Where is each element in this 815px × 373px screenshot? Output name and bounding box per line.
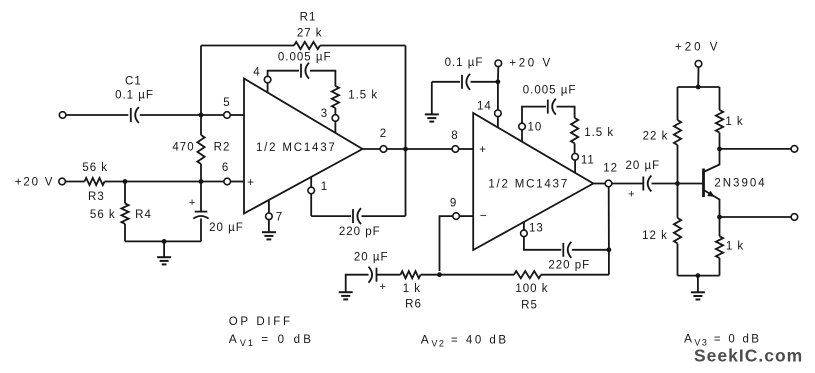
op-amp U2 pin 10 — [519, 123, 526, 130]
ground stage3 — [697, 276, 699, 293]
wire: 220pF left segment stage1 — [311, 215, 351, 217]
node: stage2 supply junction — [496, 79, 501, 84]
svg-text:5: 5 — [223, 97, 230, 109]
wire: pin 8 stub — [459, 148, 473, 150]
svg-text:1 k: 1 k — [725, 116, 743, 128]
capacitor 0.1 uF stage2 — [461, 75, 463, 89]
svg-text:−: − — [480, 211, 487, 223]
svg-text:1: 1 — [321, 181, 328, 193]
svg-text:+20 V: +20 V — [509, 57, 552, 69]
wire: pin 12 down to feedback — [608, 187, 610, 250]
transistor Q1 2N3904 base bar — [702, 169, 705, 198]
resistor R5 — [514, 271, 541, 278]
svg-text:220 pF: 220 pF — [339, 226, 381, 238]
svg-text:220 pF: 220 pF — [548, 259, 590, 271]
op-amp U1 pin 3 — [332, 115, 339, 122]
node: input terminal — [59, 112, 66, 119]
op-amp U2 pin 12 — [605, 180, 612, 187]
node: supply junction stage3 — [696, 85, 701, 90]
svg-text:1 k: 1 k — [403, 283, 421, 295]
svg-text:20 µF: 20 µF — [209, 222, 244, 234]
wire: pin 2 to output node — [387, 148, 406, 150]
resistor R2 — [200, 115, 202, 135]
svg-text:C1: C1 — [125, 76, 142, 88]
op-amp U1 pin 6 — [224, 178, 231, 185]
wire: node D to R5 — [440, 274, 515, 276]
junction: stage1 ground node — [162, 239, 167, 244]
svg-text:0.005 µF: 0.005 µF — [523, 85, 577, 97]
resistor R6 — [401, 271, 421, 278]
wire: base node to base — [678, 183, 704, 185]
svg-text:3: 3 — [321, 108, 328, 120]
op-amp U1 pin 4 — [264, 76, 271, 83]
wire: output node to pin 8 — [406, 148, 453, 150]
wire: +20V down — [697, 67, 699, 87]
node B junction — [123, 179, 128, 184]
resistor 1 k collector — [719, 87, 721, 110]
node: output terminal bottom — [791, 214, 798, 221]
wire: 220pF right segment stage1 — [362, 215, 406, 217]
wire: cap to 1.5k corner — [310, 71, 335, 86]
svg-text:1.5 k: 1.5 k — [584, 127, 614, 139]
transistor Q1 emitter arrow — [707, 191, 715, 197]
ground pin 7 — [268, 220, 270, 233]
node: +20V terminal stage1 — [59, 178, 66, 185]
svg-text:2: 2 — [380, 128, 387, 140]
wire: R1 left segment — [201, 45, 294, 47]
svg-text:470: 470 — [172, 142, 194, 154]
wire: 1.5k to pin 3 — [334, 108, 336, 115]
wire: 1.5k to pin 11 — [574, 143, 576, 153]
svg-text:1 k: 1 k — [726, 241, 744, 253]
wire: pin 12 to output cap — [612, 183, 644, 185]
wire: collector output wire — [720, 148, 792, 150]
wire: bottom rail stage3 — [678, 275, 720, 277]
wire: pin 1 down — [310, 194, 312, 216]
capacitor 0.005 uF stage2 — [547, 100, 549, 114]
wire: 0.1uF to supply node — [471, 81, 498, 83]
wire: feedback node down to R5 — [608, 250, 610, 275]
svg-text:11: 11 — [581, 155, 595, 167]
svg-text:4: 4 — [253, 67, 260, 79]
svg-text:13: 13 — [529, 223, 544, 235]
wire: node C to pin 6 — [201, 181, 224, 183]
wire: cap to 1.5k corner stage2 — [557, 107, 575, 118]
svg-text:8: 8 — [451, 130, 458, 142]
svg-text:22 k: 22 k — [643, 131, 669, 143]
wire: pin 11 stub to edge — [574, 160, 576, 173]
op-amp U2 pin 13 — [521, 230, 528, 237]
wire: ground to 0.1uF — [432, 81, 460, 83]
svg-text:9: 9 — [450, 198, 457, 210]
wire: cap to R6 — [377, 274, 401, 276]
node D junction — [437, 272, 442, 277]
svg-text:+: + — [379, 281, 386, 293]
svg-text:R1: R1 — [300, 12, 317, 24]
node: stage1 output junction — [403, 147, 408, 152]
svg-text:0.1 µF: 0.1 µF — [445, 57, 484, 69]
svg-text:1/2 MC1437: 1/2 MC1437 — [488, 179, 569, 191]
capacitor 220 pF stage2 — [562, 243, 564, 257]
svg-text:56 k: 56 k — [90, 209, 116, 221]
wire: ground stem 0.1uF — [431, 82, 433, 115]
wire: pin 1 stub to edge — [310, 177, 312, 187]
wire: ground corner R6 — [346, 275, 369, 293]
wire: node A up to R1 — [200, 46, 202, 116]
wire: apex to pin 2 — [363, 148, 381, 150]
svg-text:2N3904: 2N3904 — [714, 178, 766, 190]
svg-text:12: 12 — [603, 162, 618, 174]
node: emitter junction — [717, 215, 722, 220]
wire: R5 to feedback column — [541, 274, 609, 276]
node: +20V terminal stage2 — [495, 60, 502, 67]
op-amp U1 pin 2 — [380, 146, 387, 153]
svg-text:+20 V: +20 V — [675, 42, 720, 54]
ground 0.1uF stage2 — [425, 113, 439, 115]
wire: supply node to pin 14 — [497, 82, 499, 110]
wire: apex to pin 12 — [593, 183, 605, 185]
node: base junction — [675, 181, 680, 186]
resistor 12 k — [677, 184, 679, 219]
capacitor 20 uF stage1 — [200, 182, 202, 212]
svg-text:0.005 µF: 0.005 µF — [278, 51, 332, 63]
capacitor C1 — [130, 108, 132, 122]
wire: pin 9 left and down — [440, 216, 453, 271]
svg-text:20 µF: 20 µF — [625, 160, 660, 172]
svg-text:SeekIC.com: SeekIC.com — [694, 346, 803, 366]
capacitor 20 uF input stage2 — [376, 268, 378, 282]
svg-text:OP DIFF: OP DIFF — [229, 316, 293, 328]
svg-text:14: 14 — [477, 100, 492, 112]
op-amp U2 pin 14 — [495, 110, 502, 117]
op-amp U1 pin 7 — [266, 213, 273, 220]
transistor Q1 collector — [705, 149, 720, 172]
wire: node A to pin 5 — [201, 114, 224, 116]
ground R6 network — [339, 291, 353, 293]
wire: pin 5 stub — [230, 114, 244, 116]
svg-text:R3: R3 — [88, 191, 105, 203]
node: ground junction stage3 — [696, 273, 701, 278]
svg-text:0.1 µF: 0.1 µF — [115, 90, 154, 102]
wire: feedback vertical to output node — [405, 46, 407, 217]
wire: pin 7 stub to edge — [268, 200, 270, 213]
op-amp U2 pin 8 — [452, 146, 459, 153]
wire: pin 9 stub — [460, 215, 474, 217]
capacitor 220 pF stage1 — [352, 209, 354, 223]
transistor Q1 emitter — [705, 191, 720, 218]
wire: pin 14 stub to edge — [497, 117, 499, 128]
svg-text:R2: R2 — [214, 142, 231, 154]
resistor R4 — [124, 182, 126, 204]
wire: pin 4 stub to edge — [267, 83, 269, 93]
op-amp U2 pin 11 — [572, 154, 579, 161]
resistor 22 k — [677, 87, 679, 120]
node: +20V terminal stage3 — [695, 61, 702, 68]
svg-text:100 k: 100 k — [515, 283, 548, 295]
resistor R3 — [85, 178, 105, 185]
wire: pin 13 down and right — [524, 237, 561, 250]
node: collector junction — [717, 147, 722, 152]
svg-text:1/2 MC1437: 1/2 MC1437 — [256, 142, 337, 154]
node: stage2 feedback junction — [607, 247, 612, 252]
svg-text:1.5 k: 1.5 k — [348, 90, 378, 102]
resistor R1 — [294, 42, 320, 49]
wire: pin 4 up and right — [268, 71, 299, 77]
wire: pin 6 stub — [231, 181, 244, 183]
resistor 1 k emitter — [719, 217, 721, 236]
wire: R1 right segment — [320, 45, 406, 47]
wire: +20V terminal down — [497, 67, 499, 82]
op-amp U1 pin 5 — [224, 112, 231, 119]
capacitor 0.005 uF stage1 — [300, 64, 302, 78]
svg-text:10: 10 — [528, 122, 543, 134]
wire: R6 to node D — [421, 274, 440, 276]
svg-text:7: 7 — [276, 212, 283, 224]
wire: pin 3 stub to edge — [334, 121, 336, 132]
wire: bottom wire stage1 — [125, 240, 201, 242]
wire: pin 10 up and right — [522, 107, 546, 124]
capacitor 20 uF output — [642, 177, 644, 191]
svg-text:R5: R5 — [521, 299, 538, 311]
svg-text:6: 6 — [222, 162, 229, 174]
svg-text:+: + — [247, 177, 254, 189]
wire: 220pF to feedback node stage2 — [572, 249, 609, 251]
node C junction — [199, 179, 204, 184]
wire: emitter output wire — [720, 216, 792, 218]
svg-text:+: + — [628, 189, 635, 201]
wire: C1 to node A — [140, 114, 201, 116]
node: output terminal top — [791, 146, 798, 153]
wire: pin 13 stub to edge — [523, 222, 525, 230]
svg-text:20 µF: 20 µF — [354, 252, 389, 264]
svg-text:+: + — [189, 197, 196, 209]
resistor 1.5 k stage1 — [332, 86, 339, 108]
wire: cap to base node — [652, 183, 678, 185]
op-amp U1 1/2 MC1437 — [244, 79, 363, 214]
wire: +20V to R3 — [66, 181, 85, 183]
svg-text:56 k: 56 k — [82, 162, 108, 174]
svg-text:R6: R6 — [405, 298, 422, 310]
wire: input to C1 — [66, 114, 128, 116]
svg-text:27 k: 27 k — [297, 27, 323, 39]
op-amp U2 pin 9 — [453, 213, 460, 220]
resistor 1.5 k stage2 — [571, 118, 578, 143]
op-amp U2 1/2 MC1437 — [473, 113, 593, 250]
wire: R3 to node B — [105, 181, 126, 183]
op-amp U1 pin 1 — [308, 187, 315, 194]
svg-text:+: + — [479, 144, 486, 156]
node A junction — [199, 113, 204, 118]
wire: supply rail stage3 — [678, 86, 720, 88]
svg-text:12 k: 12 k — [642, 230, 668, 242]
ground stage1 — [163, 241, 165, 257]
svg-text:+20 V: +20 V — [15, 176, 54, 188]
wire: pin 10 stub to edge — [521, 130, 523, 142]
wire: node B to node C — [125, 181, 201, 183]
svg-text:R4: R4 — [135, 209, 152, 221]
